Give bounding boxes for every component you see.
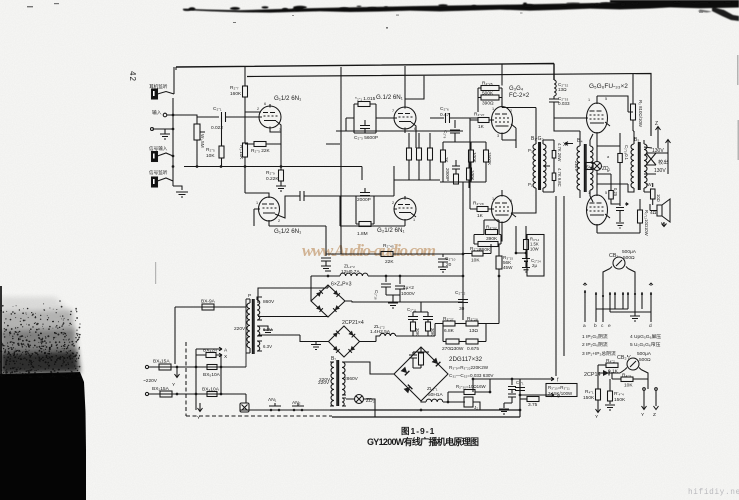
capacitor C2-9 2000P lower feedback xyxy=(356,188,374,224)
svg-text:2: 2 xyxy=(257,107,259,111)
resistor R2-19 1.8M xyxy=(359,222,371,227)
svg-text:BX₄10A: BX₄10A xyxy=(202,387,220,393)
svg-text:6.3V: 6.3V xyxy=(263,344,272,349)
wire: speaker return xyxy=(662,222,667,227)
zener ZD1 with 6V label box xyxy=(593,162,602,171)
svg-text:4.7K 26W: 4.7K 26W xyxy=(557,143,562,161)
svg-text:2 IP₂G₆阴流: 2 IP₂G₆阴流 xyxy=(582,341,608,348)
wire: V3 plate to top rail xyxy=(405,66,424,104)
svg-text:390Ω: 390Ω xyxy=(482,101,494,107)
svg-text:220V: 220V xyxy=(234,326,246,332)
svg-text:BX₅10A: BX₅10A xyxy=(203,372,221,378)
svg-text:hifidiy.net: hifidiy.net xyxy=(688,489,739,497)
svg-text:10K: 10K xyxy=(624,383,633,389)
svg-text:www.Audio-audio.com: www.Audio-audio.com xyxy=(302,241,436,260)
svg-text:3.15K/100W: 3.15K/100W xyxy=(548,391,573,396)
svg-text:500K: 500K xyxy=(482,91,494,97)
wire: 2CP14 node xyxy=(597,365,599,389)
svg-text:500μA: 500μA xyxy=(637,351,652,357)
wire: e output line xyxy=(520,393,554,397)
svg-text:FC-2×2: FC-2×2 xyxy=(509,93,530,99)
svg-text:1: 1 xyxy=(588,191,590,195)
capacitor C3 0.25 xyxy=(616,133,624,228)
svg-text:220V: 220V xyxy=(318,380,330,386)
svg-text:2000P: 2000P xyxy=(357,197,371,203)
svg-text:C₂-₁₆: C₂-₁₆ xyxy=(374,290,379,300)
wire: lower tube grid network xyxy=(245,167,300,227)
boxed label R3-10 R3-11 xyxy=(546,384,577,397)
wire: arrow A row xyxy=(196,347,222,351)
svg-text:R₂-₉: R₂-₉ xyxy=(266,170,275,176)
wire: feedback to grid xyxy=(346,118,395,131)
capacitor C2-1 coupling xyxy=(197,112,258,122)
svg-text:2000P: 2000P xyxy=(445,168,450,181)
wire: Y arrow tap line1 xyxy=(175,367,180,378)
svg-text:BX₁15A: BX₁15A xyxy=(153,359,170,365)
svg-text:5: 5 xyxy=(605,97,607,101)
fuse BX-9A transformer feed xyxy=(175,307,246,364)
small specks top-left xyxy=(27,3,388,29)
wire: driver plate feedback xyxy=(478,104,502,112)
wire: HV secondary to bridge3 xyxy=(346,362,394,374)
svg-text:30K: 30K xyxy=(430,328,435,336)
svg-text:9.1K: 9.1K xyxy=(608,369,619,375)
svg-text:130V: 130V xyxy=(654,168,666,174)
wire: feed to box xyxy=(515,226,517,253)
wire: f output line xyxy=(473,377,554,392)
svg-text:P₁: P₁ xyxy=(528,182,533,187)
svg-text:C₂-₆: C₂-₆ xyxy=(440,106,449,112)
svg-text:1000V: 1000V xyxy=(401,291,416,297)
wire: dashed chassis border vertical xyxy=(185,342,187,416)
resistor R2-9 cathode 0.22K xyxy=(279,170,284,181)
pot W2 10 ohm feedback xyxy=(651,189,656,199)
svg-text:3: 3 xyxy=(279,128,281,132)
svg-text:13Ω: 13Ω xyxy=(558,87,567,92)
svg-text:R′₄-₄: R′₄-₄ xyxy=(614,391,624,397)
wire: primary feeds xyxy=(245,299,247,403)
svg-text:6: 6 xyxy=(414,127,416,131)
resistor R2-3 22K horizontal xyxy=(254,142,266,147)
fuse BX5 10A xyxy=(207,365,217,370)
svg-text:信号监听: 信号监听 xyxy=(149,169,168,176)
svg-text:12H0.7A: 12H0.7A xyxy=(341,269,360,275)
svg-text:0.47: 0.47 xyxy=(440,112,450,118)
node A: junction dots input bus xyxy=(172,114,283,168)
node: junction dots mains xyxy=(176,366,223,396)
svg-text:R₃-₁₂10Ω10W: R₃-₁₂10Ω10W xyxy=(644,210,649,236)
wire: Y arrow right xyxy=(642,391,647,410)
svg-text:0.25: 0.25 xyxy=(613,188,618,197)
capacitor C2-24 xyxy=(522,253,530,272)
torn edge roughness lumps xyxy=(183,1,732,11)
node: mains terminal N xyxy=(145,392,148,395)
svg-text:J₂: J₂ xyxy=(474,405,478,410)
svg-text:4μ×2: 4μ×2 xyxy=(403,285,414,291)
svg-text:G₅G₆FU-₃₃×2: G₅G₆FU-₃₃×2 xyxy=(589,83,628,90)
svg-text:30K: 30K xyxy=(415,328,420,336)
wire: bridge2 out through choke ZL1-2 xyxy=(360,336,381,342)
svg-text:ZL₁-₁: ZL₁-₁ xyxy=(427,386,438,392)
svg-text:B₅: B₅ xyxy=(634,137,639,143)
svg-text:CB₂⅟: CB₂⅟ xyxy=(617,355,631,361)
svg-text:C₃₁—C₃₂=0.033 630V: C₃₁—C₃₂=0.033 630V xyxy=(449,373,494,378)
svg-text:W₂: W₂ xyxy=(647,182,654,188)
wire: riser to fuse rows xyxy=(196,349,221,410)
svg-text:2: 2 xyxy=(278,219,280,223)
svg-text:3 IP₁+IP₂总阴流: 3 IP₁+IP₂总阴流 xyxy=(582,350,616,357)
wire: first-stage cathode bus xyxy=(184,166,362,168)
wire: bridge2 input xyxy=(258,335,329,342)
wire: bridge3 bottom to choke ZL1-1 xyxy=(421,401,426,402)
resistor R2-24 390 ohm xyxy=(481,95,499,100)
svg-text:1: 1 xyxy=(492,107,494,111)
svg-text:45W: 45W xyxy=(503,265,513,270)
capacitor C2-19 2000P series 2K xyxy=(452,166,460,174)
svg-text:R₂ 810Ω/10W: R₂ 810Ω/10W xyxy=(638,100,643,128)
svg-text:C₂-₁₁: C₂-₁₁ xyxy=(407,307,417,312)
svg-text:4 UpG₅G₆屏压: 4 UpG₅G₆屏压 xyxy=(630,334,661,340)
svg-text:R₂-₂₆: R₂-₂₆ xyxy=(470,246,481,252)
svg-text:4Ω: 4Ω xyxy=(650,210,657,216)
svg-text:360K: 360K xyxy=(479,247,491,253)
ground: C3-1 xyxy=(499,403,509,414)
resistor R2-18 100K vertical xyxy=(467,168,472,180)
resistor W2-1 1.015 feedback upper xyxy=(354,104,376,133)
svg-text:0.675: 0.675 xyxy=(467,346,479,352)
svg-text:22K: 22K xyxy=(385,259,394,265)
tube U2 G1 1/2 6N1 lower triode xyxy=(259,197,280,221)
svg-text:1.8M: 1.8M xyxy=(357,231,368,237)
svg-text:b: b xyxy=(594,323,597,329)
tube U3 G2 1/2 6N1 upper xyxy=(394,107,416,129)
ground: filter caps xyxy=(386,295,400,308)
tube U5 G3 FC-2x2 upper driver xyxy=(492,107,513,134)
capacitor C3-2 bypass f xyxy=(515,384,525,395)
svg-text:1500K: 1500K xyxy=(487,152,492,165)
svg-text:50H1A: 50H1A xyxy=(428,392,443,398)
svg-text:P₂: P₂ xyxy=(528,148,533,153)
zener ZD2 xyxy=(355,395,364,404)
svg-text:10K: 10K xyxy=(206,153,215,159)
capacitor C2-5 bypass to ground xyxy=(321,258,331,271)
blob speckle texture upper xyxy=(0,303,78,361)
capacitor C2-33 0.033 xyxy=(549,99,559,118)
potentiometer W1 volume xyxy=(194,124,200,140)
svg-text:2: 2 xyxy=(392,201,394,205)
wire: upper output plate xyxy=(597,96,633,112)
svg-text:BX₂15A: BX₂15A xyxy=(152,386,170,392)
ground: bridge2 xyxy=(311,342,321,350)
resistor R3-13 0.1 ohm xyxy=(618,154,623,163)
transformer B6 primary winding xyxy=(246,299,250,353)
resistor R1 10K vertical xyxy=(243,143,248,157)
svg-text:G₁1/2 6N₁: G₁1/2 6N₁ xyxy=(274,228,301,235)
resistor R4-1 150K vertical xyxy=(596,389,601,400)
svg-text:5 U₀G₅G₆帘压: 5 U₀G₅G₆帘压 xyxy=(630,341,661,348)
wire: mains line 2 xyxy=(149,393,221,395)
svg-text:0.022: 0.022 xyxy=(211,125,223,131)
transformer B7 primary xyxy=(330,362,334,406)
label contact d xyxy=(649,283,653,286)
svg-text:150K: 150K xyxy=(583,395,595,401)
wire: mains line 1 xyxy=(149,366,221,368)
ground: transformer center tap xyxy=(262,326,273,335)
svg-text:R₄-₁: R₄-₁ xyxy=(585,389,594,395)
svg-text:0.22K: 0.22K xyxy=(266,176,279,182)
svg-text:R₄-₂: R₄-₂ xyxy=(606,358,615,364)
jack J3 signal monitor 信号监听 xyxy=(152,177,158,187)
resistor R2-26 10K xyxy=(472,251,483,256)
resistor R3-14 1.5K 10W xyxy=(524,240,529,250)
capacitor C 0.675 xyxy=(466,339,478,344)
node: dots at R3-14 xyxy=(515,252,528,255)
wire: Y arrow left meter net xyxy=(596,404,601,413)
resistor R2-29 360K loop xyxy=(474,232,501,244)
svg-text:C₂-₃ 5600P: C₂-₃ 5600P xyxy=(354,135,378,141)
speaker LS 4 ohm xyxy=(650,199,670,222)
wire: regulated bus to right xyxy=(435,324,443,337)
svg-text:R₃-₂₇: R₃-₂₇ xyxy=(443,316,454,322)
blob speckle texture xyxy=(0,300,81,379)
capacitor C2 0.25 between tubes xyxy=(609,191,614,200)
svg-text:ZL₂-₂: ZL₂-₂ xyxy=(344,264,355,270)
resistor R2-5 grid xyxy=(219,146,224,158)
svg-text:G.1/2 6N₁: G.1/2 6N₁ xyxy=(376,94,403,101)
node: input terminal circles xyxy=(163,113,167,117)
choke ZL1-2 1.4H 2.5A xyxy=(380,333,435,336)
switch AN2 xyxy=(291,403,305,410)
svg-text:b: b xyxy=(607,169,609,173)
svg-text:耳机监听: 耳机监听 xyxy=(149,83,168,90)
svg-text:ZD₂: ZD₂ xyxy=(366,398,375,404)
bridge rectifier D2 2CP21x4 xyxy=(329,326,360,357)
resistor R2-14 100K vertical xyxy=(417,148,422,160)
resistor R2-45 22K xyxy=(381,252,393,257)
ground: input section xyxy=(176,192,188,197)
svg-text:6×Z₂P×3: 6×Z₂P×3 xyxy=(331,282,352,288)
node: mains terminal L xyxy=(145,365,148,368)
svg-text:5: 5 xyxy=(510,199,512,203)
svg-text:Z: Z xyxy=(653,412,656,418)
jack J2 signal input 信号输入 xyxy=(152,152,158,162)
svg-text:*₂-₁ 1.015: *₂-₁ 1.015 xyxy=(355,96,376,102)
svg-text:2K: 2K xyxy=(444,157,449,164)
resistor R2-27 1K grid stopper xyxy=(478,118,489,123)
resistor R3-16 3.75 xyxy=(527,397,539,402)
resistor R2-13 vertical xyxy=(407,148,412,160)
svg-text:10K: 10K xyxy=(471,258,480,264)
capacitor C2-11 b with bleeder xyxy=(423,317,433,337)
wire: driver mid rails xyxy=(440,182,486,196)
svg-text:G₂1/2 6N₁: G₂1/2 6N₁ xyxy=(377,227,405,234)
svg-text:P: P xyxy=(248,293,251,299)
svg-text:500Ω: 500Ω xyxy=(639,357,651,363)
diode 2CP14 xyxy=(598,371,620,376)
gray specks under torn edge xyxy=(292,12,703,17)
svg-text:d: d xyxy=(649,323,652,329)
svg-text:2: 2 xyxy=(510,109,512,113)
svg-text:1: 1 xyxy=(492,197,494,201)
switch S1 contact row xyxy=(585,290,651,322)
svg-text:10Ω: 10Ω xyxy=(656,194,661,202)
svg-text:500Ω: 500Ω xyxy=(623,255,635,261)
svg-text:6V: 6V xyxy=(586,165,593,171)
svg-text:1: 1 xyxy=(413,218,415,222)
label contact a xyxy=(583,283,587,286)
fuse BX1 15A xyxy=(159,364,171,370)
capacitor C31 inside bridge xyxy=(409,347,429,368)
choke ZL1-1 50H 1A xyxy=(426,392,465,402)
jack J1 headphone monitor 耳机监听 xyxy=(152,89,158,99)
wire: input to volume pot xyxy=(153,115,198,129)
svg-text:图1-9-1: 图1-9-1 xyxy=(401,426,435,436)
svg-text:220V: 220V xyxy=(574,161,579,171)
svg-text:B₄: B₄ xyxy=(577,138,583,144)
svg-text:2DG117×32: 2DG117×32 xyxy=(449,356,483,363)
wire: bottom rails xyxy=(330,379,520,417)
svg-text:R₂-₃₂: R₂-₃₂ xyxy=(486,225,497,231)
svg-text:BX₃2A: BX₃2A xyxy=(203,348,218,354)
wire: switch link bars xyxy=(596,309,651,312)
pin numbers tubes xyxy=(256,97,610,223)
resistor R2-30 10 ohm 16W xyxy=(464,390,475,395)
ground: below input terminal xyxy=(160,129,170,139)
svg-text:C₂-₁₈0.1: C₂-₁₈0.1 xyxy=(624,145,629,161)
resistor R3-9 inside bridge xyxy=(419,353,424,365)
tube U8 G6 FU-33 lower output xyxy=(587,195,608,225)
svg-text:390K: 390K xyxy=(486,236,498,242)
svg-text:2CP14: 2CP14 xyxy=(584,372,600,378)
choke ZL3 13 ohm xyxy=(554,80,556,99)
svg-text:BX-9A: BX-9A xyxy=(201,299,216,305)
svg-text:30: 30 xyxy=(459,306,465,312)
wire: output taps crossing 校出 xyxy=(644,136,668,174)
resistor R3-28 13 ohm xyxy=(466,321,478,326)
svg-text:3: 3 xyxy=(497,134,499,138)
bridge rectifier D1 6xZ2P xyxy=(311,285,345,317)
wire: to output tube grids xyxy=(502,108,586,145)
svg-text:3.75: 3.75 xyxy=(528,402,538,408)
wire: HV secondary to bridge1 xyxy=(258,276,328,317)
svg-text:B₇: B₇ xyxy=(331,356,336,362)
wire: upper driver cathode xyxy=(502,64,516,148)
capacitor C2-16 filter xyxy=(381,276,391,295)
svg-text:130V: 130V xyxy=(652,148,664,154)
meter CB2 xyxy=(627,358,639,370)
resistor R2-22 1500K vertical xyxy=(484,150,489,162)
wire: Z arrow xyxy=(654,391,659,410)
wire: verticals joining output stage to meters xyxy=(556,196,564,376)
resistor R3-15 56K 45W vertical xyxy=(496,256,502,269)
svg-text:1: 1 xyxy=(588,98,590,102)
transformer B5 output xyxy=(631,131,634,192)
wire: interstage secondary xyxy=(543,140,554,192)
fuse BX2 15A xyxy=(160,391,172,397)
wire: bridge1 lower bus xyxy=(345,301,463,302)
resistor R4-2 9.1K xyxy=(606,363,618,368)
transformer B1-G3 interstage xyxy=(511,144,536,213)
svg-text:R₂-₃ 22K: R₂-₃ 22K xyxy=(251,148,271,154)
wire: lower stage bottom bus xyxy=(340,167,405,227)
svg-text:1.4H2.5A: 1.4H2.5A xyxy=(370,329,391,335)
resistor R2-32 390K loop xyxy=(484,220,499,232)
wire: lower rail second stage xyxy=(394,133,440,226)
wire: Y arrow below switch row xyxy=(198,403,203,412)
svg-text:G₁1/2 6N₁: G₁1/2 6N₁ xyxy=(274,95,301,102)
transformer B6 power core xyxy=(253,299,255,354)
tube U4 G2 1/2 6N1 lower xyxy=(394,198,416,220)
svg-text:500μA: 500μA xyxy=(622,249,637,255)
svg-text:AN₂: AN₂ xyxy=(292,400,301,406)
capacitor C2-10 20 decoupling xyxy=(438,254,448,272)
svg-text:2CP21×4: 2CP21×4 xyxy=(342,320,364,326)
svg-text:7: 7 xyxy=(392,109,394,113)
svg-text:6: 6 xyxy=(264,102,266,106)
svg-text:R₁:10K: R₁:10K xyxy=(239,145,244,160)
wire: switch feed row xyxy=(240,394,330,410)
bridge rectifier D3 2DG117x32 HV xyxy=(394,347,448,401)
wire: B+ feed bus with R2-45 xyxy=(326,253,463,255)
fuse BX4 10A xyxy=(207,392,217,397)
node: power rail dots xyxy=(420,378,522,412)
svg-text:信号输入: 信号输入 xyxy=(149,145,168,152)
svg-text:ΛN₁: ΛN₁ xyxy=(268,397,277,403)
wire: input ground bus xyxy=(173,98,182,190)
wire: bridge1 DC out to filter bus xyxy=(311,275,340,277)
lamp XD1 xyxy=(240,403,249,412)
wire: grids of output tubes xyxy=(554,118,593,202)
diode mark bridge3 xyxy=(401,367,410,376)
tube U6 G4 FC-2x2 lower driver xyxy=(492,196,513,223)
svg-text:4.7K 9.8C: 4.7K 9.8C xyxy=(557,168,562,187)
svg-text:e: e xyxy=(608,324,611,329)
svg-text:校出: 校出 xyxy=(658,158,668,166)
svg-text:a: a xyxy=(583,324,586,329)
resistor R4-3 10K xyxy=(621,377,633,382)
ground: switch common xyxy=(630,316,640,321)
svg-text:R₂-₄₅: R₂-₄₅ xyxy=(383,243,394,249)
wire: dashed chassis border bottom xyxy=(186,415,332,417)
capacitor C2-17 4ux2 1000V xyxy=(395,276,405,302)
svg-text:42: 42 xyxy=(128,71,137,82)
transformer B7 HV core xyxy=(337,360,339,406)
svg-text:6.3V: 6.3V xyxy=(263,327,272,332)
resistor R3-29 270 ohm 30W xyxy=(446,339,459,344)
svg-text:R₂-₃₀=10Ω16W: R₂-₃₀=10Ω16W xyxy=(456,384,487,389)
wire: left riser of top rail xyxy=(175,67,177,70)
fuse BX3 2A with arrow X row xyxy=(206,353,216,358)
switch AN1 xyxy=(268,403,282,410)
resistor R2-7 160K plate load xyxy=(243,86,248,97)
svg-text:2μ: 2μ xyxy=(532,263,537,268)
enclosure box R3-14 C2-24 xyxy=(527,235,544,277)
capacitor C2-11 a with bleeder xyxy=(408,317,418,337)
resistor R3-27 6.8K xyxy=(443,321,455,326)
svg-text:150K: 150K xyxy=(614,397,626,403)
svg-text:CB₁: CB₁ xyxy=(609,253,618,259)
svg-text:R₃-₉=R₃-₂₂220K2W: R₃-₉=R₃-₂₂220K2W xyxy=(449,365,489,370)
right page edge marks xyxy=(737,55,739,160)
svg-text:6.8K: 6.8K xyxy=(444,328,455,334)
svg-text:~220V: ~220V xyxy=(143,378,158,384)
torn dark top edge of scanned page xyxy=(183,0,739,21)
svg-text:R₃-₂₈: R₃-₂₈ xyxy=(467,316,478,322)
svg-text:Z: Z xyxy=(655,121,658,127)
dark scanned book-gutter blob bottom-left xyxy=(0,262,156,500)
wire: top B+ rail xyxy=(176,64,554,81)
resistor R2-28 1K lower grid xyxy=(477,207,488,212)
